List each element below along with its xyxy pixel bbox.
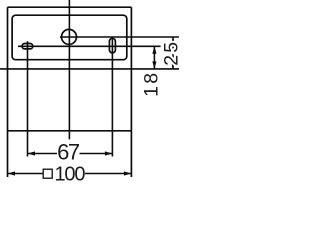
svg-text:25: 25	[160, 40, 182, 66]
svg-text:67: 67	[57, 139, 80, 164]
svg-text:18: 18	[140, 71, 162, 97]
svg-text:100: 100	[55, 164, 86, 182]
